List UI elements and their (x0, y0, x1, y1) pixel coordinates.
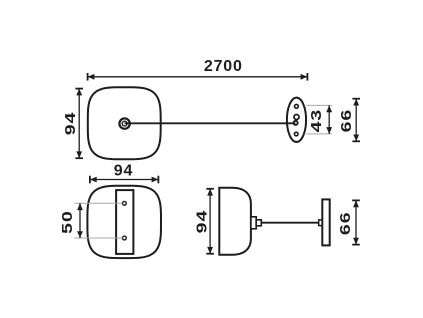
cord line (side view) (261, 222, 322, 224)
dimension 66 (front) label (337, 109, 354, 133)
bracket top screw hole (123, 201, 127, 205)
cord line from reel to wall plate (125, 122, 296, 124)
dimension 94 (side) label (192, 210, 209, 234)
extension line bottom (50 dim) (74, 237, 122, 239)
rear view body (squircle housing) (87, 186, 161, 258)
dimension 66 (plate height, side) line (352, 200, 360, 244)
extension line top (50 dim) (74, 202, 122, 204)
dimension 66 (side) label (336, 211, 353, 235)
dimension 94 (width) label (114, 162, 133, 179)
dimension 94 (front height) label (61, 112, 78, 136)
rear mounting bracket rectangle (116, 190, 133, 254)
keyhole large circle (294, 115, 299, 120)
reel hub inner circle (122, 121, 127, 126)
dimension 66 (oval height, front) line (352, 99, 360, 142)
cord outlet connector step 2 (256, 220, 261, 226)
dimension 94 (side height) line (206, 189, 214, 254)
wall plate oval (front) (287, 98, 306, 142)
dimension 43 (hole spacing) line (326, 105, 332, 133)
svg-text:94: 94 (61, 112, 78, 136)
wall plate (side profile) (322, 199, 329, 245)
svg-text:50: 50 (58, 210, 75, 234)
wall plate top screw hole (295, 104, 299, 108)
wall plate bottom screw hole (294, 132, 298, 136)
svg-text:94: 94 (192, 210, 209, 234)
svg-text:66: 66 (336, 211, 353, 235)
svg-text:43: 43 (307, 109, 324, 133)
dimension 50 (bracket hole spacing) line (77, 203, 83, 238)
extension line top (43 dim) (306, 104, 332, 106)
dimension 94 (width) line (90, 176, 158, 184)
dimension 2700 label (204, 58, 243, 75)
extension line bottom (43 dim) (306, 133, 332, 135)
wall plate hook nub (side) (319, 220, 323, 226)
dimension 94 (front height) line (75, 89, 83, 159)
dimension 2700 (cord length) line (88, 73, 308, 81)
dimension 43 label (307, 109, 324, 133)
cord outlet connector step 1 (251, 217, 256, 229)
reel hub outer circle (119, 118, 129, 128)
keyhole small circle (294, 121, 298, 125)
svg-text:66: 66 (337, 109, 354, 133)
svg-text:94: 94 (114, 162, 133, 179)
svg-text:2700: 2700 (204, 58, 243, 75)
front view body (squircle housing) (88, 87, 161, 159)
side view body (D profile) (219, 188, 251, 255)
dimension 50 label (58, 210, 75, 234)
bracket bottom screw hole (123, 236, 127, 240)
